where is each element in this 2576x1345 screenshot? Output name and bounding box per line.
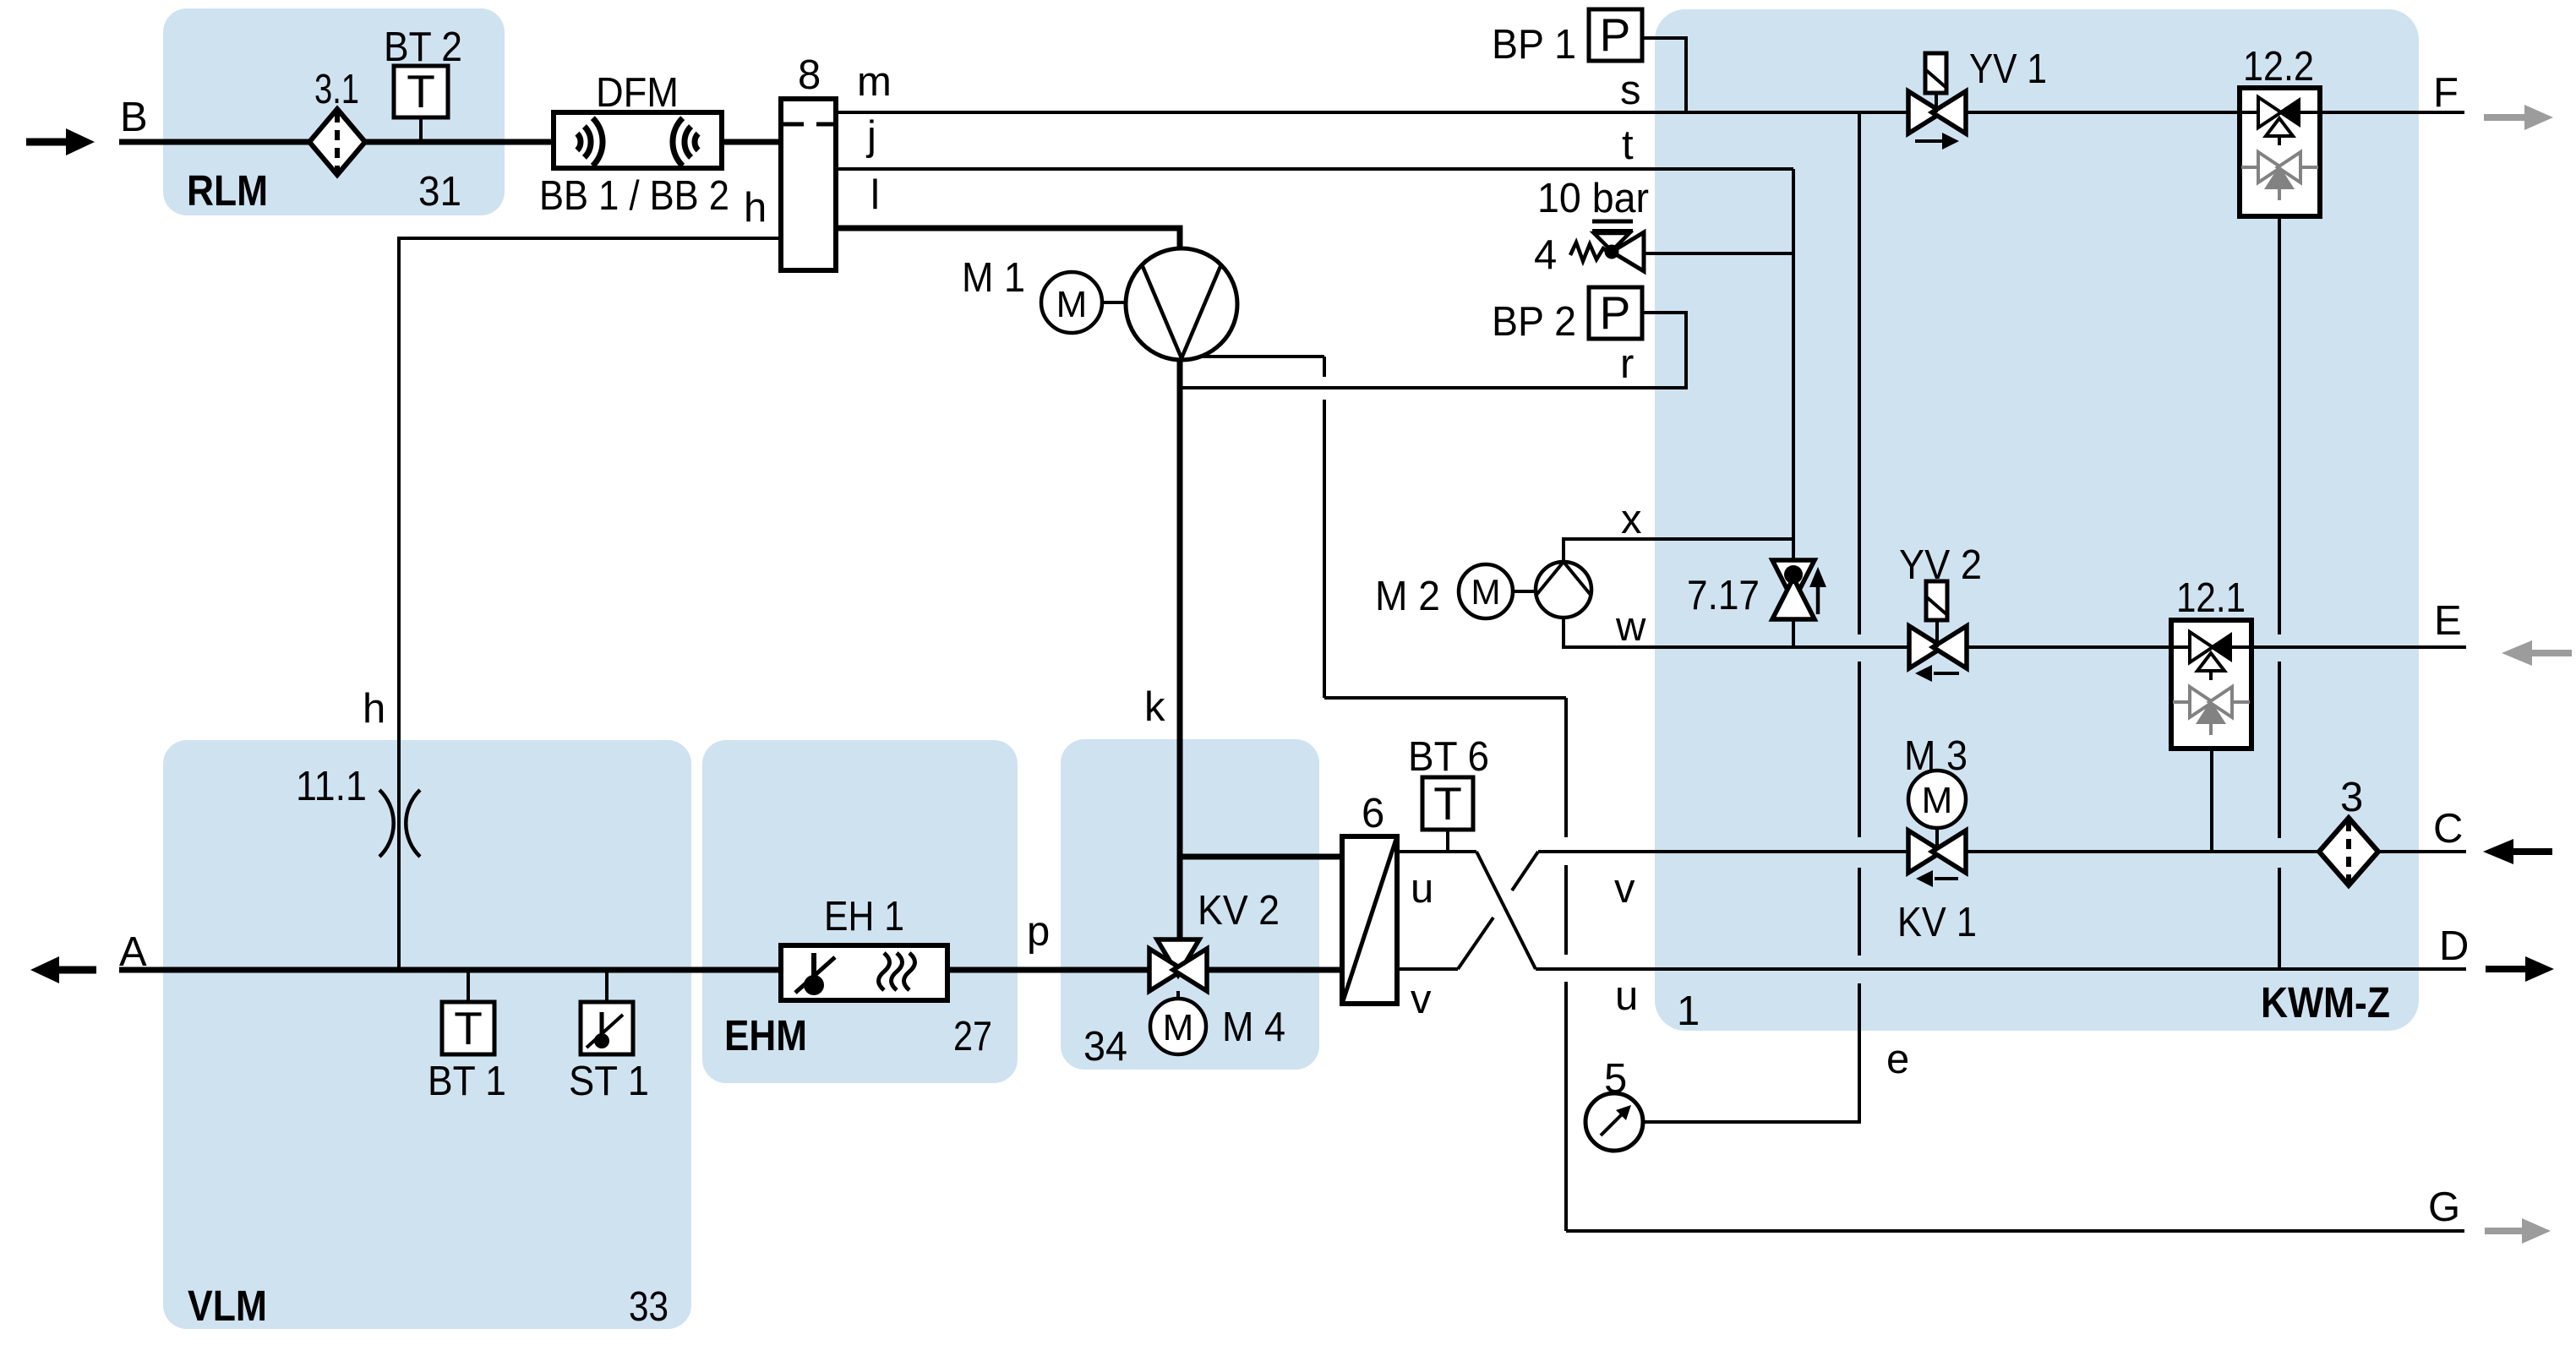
svg-text:4: 4 [1534, 232, 1557, 278]
pump M1 [1126, 248, 1237, 360]
svg-text:BT 1: BT 1 [428, 1059, 506, 1104]
temperature sensor BT2 [394, 65, 448, 117]
pipe B inlet [119, 139, 781, 145]
svg-text:T: T [407, 65, 435, 117]
temperature sensor BT1 [442, 1002, 494, 1054]
wire BP1 to m line [1642, 38, 1686, 112]
svg-text:YV 1: YV 1 [1969, 46, 2047, 92]
svg-text:31: 31 [418, 169, 461, 215]
wire vertical 2697 segment a [2278, 216, 2281, 634]
svg-text:h: h [363, 686, 385, 732]
wire vertical 2697 segment b [2278, 662, 2281, 838]
svg-text:t: t [1622, 123, 1634, 168]
pipe branch k to exchanger [1180, 854, 1342, 860]
arrow inlet E gray [2502, 640, 2572, 666]
svg-text:A: A [119, 929, 147, 975]
wire vertical 2200 segment a [1858, 112, 1861, 634]
pipe l from block 8 [836, 228, 1180, 250]
svg-text:w: w [1615, 604, 1646, 650]
module VLM background [163, 740, 691, 1329]
svg-text:YV 2: YV 2 [1899, 542, 1982, 588]
svg-text:x: x [1621, 497, 1642, 542]
svg-text:r: r [1620, 341, 1634, 387]
svg-text:5: 5 [1604, 1056, 1627, 1102]
svg-text:34: 34 [1083, 1024, 1127, 1070]
wire vertical 1567 lower [1323, 400, 1326, 698]
arrow outlet D [2486, 956, 2554, 982]
svg-text:E: E [2434, 598, 2462, 644]
wire vertical 1567 upper [1323, 357, 1326, 377]
svg-text:D: D [2439, 923, 2469, 969]
svg-text:j: j [865, 113, 876, 159]
pressure sensor BP2 [1589, 286, 1642, 339]
arrow outlet F gray [2484, 105, 2553, 130]
svg-text:m: m [857, 59, 892, 105]
wire vertical 2200 segment b [1858, 662, 1861, 837]
arrow outlet G gray [2485, 1218, 2551, 1244]
svg-text:P: P [1600, 8, 1631, 61]
svg-text:M: M [1163, 1007, 1194, 1048]
wire M4 stem [1176, 991, 1180, 999]
filter 3 [2319, 818, 2378, 885]
svg-text:k: k [1144, 684, 1165, 730]
pump M2 [1536, 562, 1591, 618]
svg-text:7.17: 7.17 [1687, 573, 1760, 618]
module EHM background [702, 740, 1018, 1083]
valve 7.17 [1772, 560, 1826, 619]
motor M2 [1459, 564, 1513, 618]
pipe A p line [119, 967, 1342, 973]
svg-text:M 1: M 1 [962, 255, 1025, 301]
svg-text:p: p [1027, 909, 1050, 955]
wire BP2 r line [1182, 313, 1686, 388]
svg-text:v: v [1614, 866, 1635, 912]
motor M3 [1908, 771, 1966, 828]
svg-text:M 2: M 2 [1375, 574, 1440, 619]
wire j t line [836, 167, 1793, 171]
wire ST1 stem [605, 970, 609, 1002]
wire M2 motor connector [1513, 590, 1536, 593]
wire x M2 pump to t vertical [1564, 539, 1793, 562]
svg-text:BP 2: BP 2 [1492, 299, 1576, 345]
svg-text:EH 1: EH 1 [824, 894, 904, 939]
wire vertical 1853 segment c to G [1564, 982, 1568, 1231]
wire exchanger u out [1397, 850, 1476, 853]
relief valve 4 [1570, 221, 1644, 271]
svg-text:KWM-Z: KWM-Z [2261, 978, 2390, 1026]
svg-text:M: M [1922, 780, 1953, 821]
wire crossing diagonal up segment b [1512, 852, 1538, 890]
motor M1 [1041, 272, 1102, 333]
manifold block 8 [781, 99, 836, 270]
wire vertical 1853 segment b [1564, 865, 1568, 955]
svg-text:3: 3 [2340, 775, 2363, 820]
wire crossing diagonal down [1476, 852, 1536, 969]
svg-text:u: u [1615, 973, 1638, 1019]
pipe k from pump M1 to KV2 [1177, 357, 1183, 970]
wire BT6 stem [1446, 830, 1449, 852]
pipe break symbol 11.1 [379, 790, 420, 857]
wire horizontal 826 [1324, 696, 1566, 700]
svg-text:VLM: VLM [188, 1282, 267, 1330]
svg-text:BP 1: BP 1 [1492, 22, 1576, 68]
svg-text:RLM: RLM [187, 166, 268, 215]
wire vertical 1853 segment a [1564, 698, 1568, 837]
wire BT1 stem [467, 970, 470, 1002]
svg-text:G: G [2428, 1184, 2460, 1230]
wire BT2 stem [419, 117, 423, 142]
wire C line [1538, 850, 2466, 853]
svg-text:BT 6: BT 6 [1408, 734, 1489, 780]
svg-text:DFM: DFM [596, 70, 679, 116]
svg-text:27: 27 [953, 1014, 992, 1059]
gauge 5 [1585, 1093, 1643, 1151]
wire vertical 2697 segment c [2278, 868, 2281, 969]
svg-text:11.1: 11.1 [296, 764, 367, 809]
svg-text:T: T [454, 1002, 483, 1054]
wire vertical 2617 from 12.1 to C [2210, 749, 2213, 852]
svg-text:10 bar: 10 bar [1537, 176, 1649, 221]
wire h line [399, 238, 781, 970]
wire relief valve 4 to t vertical [1644, 252, 1793, 255]
arrow inlet B [26, 128, 95, 155]
valve KV2 [1149, 939, 1207, 991]
arrow outlet A [30, 956, 96, 983]
svg-text:C: C [2433, 806, 2463, 852]
svg-text:h: h [744, 185, 767, 231]
module 34 background [1061, 739, 1319, 1070]
heat exchanger 6 [1342, 836, 1397, 1004]
solenoid valve YV2 [1909, 581, 1967, 682]
wire M3 stem [1935, 828, 1939, 852]
svg-text:F: F [2433, 70, 2459, 116]
wire w E line [1564, 618, 2466, 647]
wire m s F line [836, 111, 2464, 114]
svg-text:BB 1 / BB 2: BB 1 / BB 2 [539, 173, 729, 219]
module KWM-Z background [1655, 9, 2419, 1031]
check valve block 12.2 [2240, 88, 2320, 216]
svg-text:s: s [1620, 68, 1641, 113]
svg-text:EHM: EHM [724, 1011, 807, 1059]
electric heater EH1 [781, 945, 947, 1000]
svg-text:12.2: 12.2 [2243, 44, 2314, 90]
svg-text:M 3: M 3 [1904, 733, 1967, 779]
wire vertical 2200 segment d to gauge [1643, 983, 1859, 1122]
wire G line [1566, 1229, 2464, 1233]
svg-text:u: u [1411, 866, 1433, 912]
wire D line [1536, 967, 2466, 971]
flow meter DFM [554, 112, 722, 168]
filter 3.1 [309, 109, 365, 175]
svg-text:1: 1 [1677, 988, 1700, 1034]
svg-text:6: 6 [1362, 791, 1384, 836]
temperature sensor BT6 [1422, 777, 1473, 830]
svg-text:12.1: 12.1 [2176, 575, 2246, 621]
wire t vertical to valve 7.17 [1792, 169, 1795, 647]
svg-text:M 4: M 4 [1222, 1005, 1285, 1050]
svg-text:l: l [870, 172, 880, 218]
wire M1 motor connector [1102, 301, 1127, 304]
svg-text:M: M [1056, 284, 1088, 325]
svg-text:3.1: 3.1 [314, 67, 359, 112]
svg-text:T: T [1433, 777, 1462, 830]
svg-text:P: P [1600, 286, 1631, 339]
svg-text:33: 33 [629, 1284, 669, 1330]
svg-text:KV 2: KV 2 [1198, 888, 1280, 934]
frost sensor ST1 [581, 1002, 633, 1054]
svg-text:v: v [1411, 977, 1432, 1022]
svg-text:ST 1: ST 1 [569, 1059, 649, 1104]
svg-text:8: 8 [798, 52, 821, 98]
wire vertical 2200 segment c [1858, 868, 1861, 956]
svg-text:KV 1: KV 1 [1897, 900, 1977, 945]
wire exchanger v out [1397, 967, 1458, 971]
svg-text:BT 2: BT 2 [384, 25, 462, 70]
check valve block 12.1 [2171, 620, 2251, 749]
motor M4 [1150, 999, 1206, 1054]
svg-text:B: B [120, 95, 148, 140]
wire crossing diagonal up segment a [1458, 918, 1493, 969]
arrow inlet C [2483, 839, 2552, 864]
module RLM background [163, 8, 505, 215]
wire pump M1 outlet to sensor loop [1182, 355, 1324, 358]
solenoid valve YV1 [1908, 53, 1966, 150]
valve KV1 [1908, 830, 1966, 887]
pressure sensor BP1 [1589, 8, 1642, 61]
svg-text:e: e [1886, 1037, 1909, 1082]
svg-text:M: M [1471, 572, 1501, 612]
